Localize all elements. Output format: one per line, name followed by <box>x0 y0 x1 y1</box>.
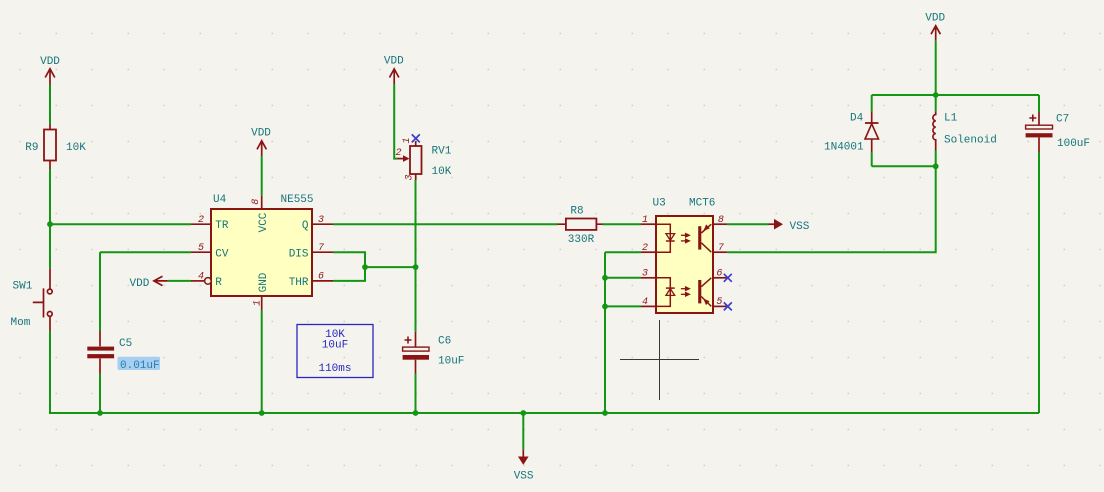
wire D4 bottom link <box>872 165 936 167</box>
power VDD at reset pin <box>130 276 168 290</box>
U3 phototransistor 2 <box>698 278 711 307</box>
svg-text:R8: R8 <box>570 206 583 218</box>
svg-text:R9: R9 <box>25 142 38 154</box>
wire DIS-THR to RV1 <box>365 266 416 268</box>
switch SW1 Mom <box>11 268 53 331</box>
svg-text:U3: U3 <box>653 198 666 210</box>
wire C5 column <box>99 252 101 413</box>
svg-text:4: 4 <box>198 271 204 282</box>
svg-text:330R: 330R <box>568 234 595 246</box>
svg-text:VDD: VDD <box>40 56 60 68</box>
pin 5 CV <box>191 243 229 260</box>
no-connect X on U3 pin5 <box>724 302 732 310</box>
wire VDD to RV1 wiper <box>394 84 397 159</box>
U3 pin 1 <box>641 215 656 226</box>
wire R8 to U3 pin1 <box>602 223 641 225</box>
svg-text:VDD: VDD <box>925 12 945 24</box>
svg-text:1: 1 <box>642 215 648 226</box>
wire GND column <box>261 310 263 413</box>
power VDD left <box>40 56 60 84</box>
U3 pin 2 <box>641 243 656 254</box>
svg-text:MCT6: MCT6 <box>689 198 715 210</box>
junction C5 rail <box>97 410 103 416</box>
pin 8 VCC <box>251 195 270 232</box>
pin 6 THR <box>289 271 333 289</box>
svg-text:3: 3 <box>405 174 416 180</box>
svg-text:U4: U4 <box>213 194 227 206</box>
svg-text:7: 7 <box>718 243 724 254</box>
svg-text:GND: GND <box>258 272 270 292</box>
junction node TR <box>47 221 53 227</box>
svg-text:3: 3 <box>642 269 648 280</box>
wire RV1 column <box>415 180 417 332</box>
svg-text:100uF: 100uF <box>1057 138 1090 150</box>
svg-text:R: R <box>215 277 222 289</box>
svg-text:Mom: Mom <box>11 317 31 329</box>
diode D4 1N4001 <box>824 111 879 153</box>
capacitor C7 <box>1026 112 1090 152</box>
junction U3 pin4 <box>602 304 608 310</box>
svg-text:0.01uF: 0.01uF <box>120 360 160 372</box>
svg-text:VCC: VCC <box>258 212 270 232</box>
U3 LED 2 <box>656 278 675 307</box>
wire C6 bottom <box>415 374 417 414</box>
junction L1 bottom <box>933 163 939 169</box>
pin 1 GND <box>253 272 271 310</box>
svg-text:L1: L1 <box>944 113 958 125</box>
svg-text:10K: 10K <box>432 166 452 178</box>
optocoupler U3 MCT6 body <box>653 198 716 314</box>
no-connect X on U3 pin6 <box>724 274 732 282</box>
power VSS right <box>769 219 810 233</box>
wire left rail upper <box>49 84 51 124</box>
wire U3 pin3 row <box>605 277 641 279</box>
wire below switch <box>49 331 51 412</box>
power VSS bottom <box>514 450 534 483</box>
svg-text:Solenoid: Solenoid <box>944 135 997 147</box>
capacitor C6 <box>403 332 465 374</box>
svg-text:1: 1 <box>402 137 413 143</box>
svg-text:8: 8 <box>251 199 262 205</box>
wire C7 column <box>1038 95 1040 413</box>
svg-text:C6: C6 <box>438 336 451 348</box>
power VDD above U4 <box>251 128 271 157</box>
wire CV row <box>100 251 191 253</box>
pin 7 DIS <box>289 243 333 260</box>
U3 pin 5 <box>714 297 728 308</box>
cursor crosshair <box>620 320 699 400</box>
wire pin7 to solenoid <box>727 166 935 252</box>
junction DIS-THR <box>362 264 368 270</box>
no-connect X on RV1 pin1 <box>412 134 420 142</box>
wire left rail R9 to switch <box>49 168 51 268</box>
junction U3 rail <box>602 410 608 416</box>
wire L1 stub links <box>935 95 937 166</box>
potentiometer RV1 <box>395 137 451 180</box>
svg-text:THR: THR <box>289 277 309 289</box>
svg-text:SW1: SW1 <box>13 281 33 293</box>
U3 phototransistor 1 <box>698 224 711 252</box>
svg-text:110ms: 110ms <box>318 363 351 375</box>
resistor R9 <box>25 124 86 169</box>
svg-text:RV1: RV1 <box>432 146 452 158</box>
wire VDD top right <box>935 41 937 95</box>
svg-text:VDD: VDD <box>251 128 271 140</box>
U3 LED 2 emission arrows <box>681 287 689 296</box>
power VDD above RV1 <box>384 56 404 85</box>
svg-text:Q: Q <box>302 220 309 232</box>
svg-text:NE555: NE555 <box>281 194 314 206</box>
svg-text:7: 7 <box>318 243 324 254</box>
svg-text:4: 4 <box>642 297 648 308</box>
op-amp U4 NE555 body <box>211 194 314 296</box>
U3 pin 8 <box>714 215 728 226</box>
svg-text:5: 5 <box>198 243 204 254</box>
svg-text:6: 6 <box>716 269 722 280</box>
text box note <box>297 325 373 378</box>
wire DIS link <box>333 252 365 267</box>
svg-text:2: 2 <box>395 148 401 159</box>
pin 4 R inverted <box>191 271 222 289</box>
svg-text:C7: C7 <box>1056 114 1069 126</box>
svg-text:8: 8 <box>718 215 724 226</box>
svg-text:D4: D4 <box>850 113 864 125</box>
junction VSS rail <box>520 410 526 416</box>
svg-text:10K: 10K <box>66 142 86 154</box>
U3 LED 1 <box>656 224 675 252</box>
svg-text:6: 6 <box>318 271 324 282</box>
svg-text:CV: CV <box>215 248 229 260</box>
svg-text:VDD: VDD <box>384 56 404 68</box>
svg-text:VSS: VSS <box>514 471 534 483</box>
junction C6 rail <box>413 410 419 416</box>
svg-text:10uF: 10uF <box>438 356 464 368</box>
svg-text:1: 1 <box>253 300 264 306</box>
svg-text:2: 2 <box>642 243 648 254</box>
wire U3 pin2 row <box>605 251 641 253</box>
svg-text:VDD: VDD <box>130 278 150 290</box>
svg-text:3: 3 <box>318 215 324 226</box>
svg-text:10uF: 10uF <box>322 340 348 352</box>
wire top rail <box>872 94 1039 96</box>
capacitor C5 <box>87 331 160 374</box>
wire U3 left column <box>604 252 606 413</box>
svg-text:2: 2 <box>198 215 204 226</box>
pin 2 TR <box>191 215 229 232</box>
inductor L1 Solenoid <box>933 111 997 150</box>
junction U3 pin3 <box>602 275 608 281</box>
junction VDD top <box>933 92 939 98</box>
svg-text:5: 5 <box>716 297 722 308</box>
wire THR link <box>333 267 365 281</box>
wire U3 pin4 row <box>605 305 641 307</box>
svg-text:C5: C5 <box>119 338 132 350</box>
svg-text:DIS: DIS <box>289 248 309 260</box>
wire Q output row <box>333 223 558 225</box>
svg-text:1N4001: 1N4001 <box>824 142 864 154</box>
power VDD top right <box>925 12 945 40</box>
U3 pin 7 <box>714 243 728 254</box>
wire VDD to R pin <box>168 280 191 282</box>
wire bottom rail <box>49 412 1039 414</box>
svg-text:VSS: VSS <box>790 221 810 233</box>
pin 3 Q <box>302 215 333 232</box>
wire pin8 to VSS <box>727 223 768 225</box>
wire TR row <box>50 223 191 225</box>
wire VSS bottom stub <box>522 413 524 450</box>
U3 LED 1 emission arrows <box>681 234 689 243</box>
junction RV1 column <box>413 264 419 270</box>
wire D4 column <box>871 95 873 166</box>
svg-text:TR: TR <box>215 220 229 232</box>
U3 pin 6 <box>714 269 728 280</box>
U3 pin 4 <box>641 297 656 308</box>
junction GND rail <box>259 410 265 416</box>
wire VCC column <box>261 156 263 195</box>
resistor R8 <box>558 206 603 247</box>
U3 pin 3 <box>641 269 656 280</box>
